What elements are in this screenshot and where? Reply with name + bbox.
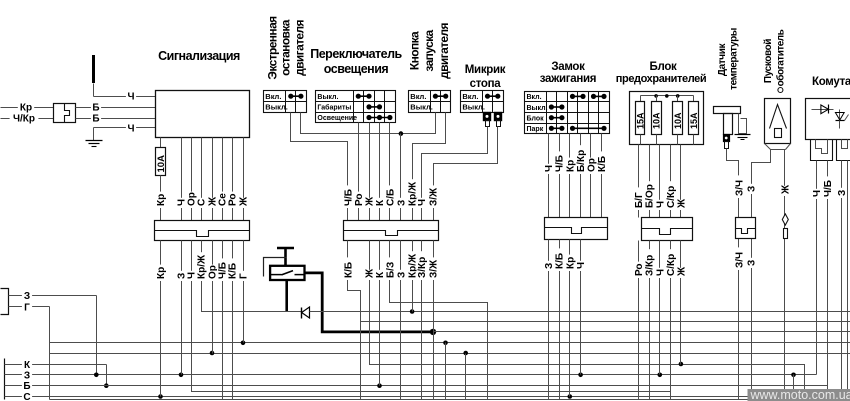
svg-text:Блок: Блок — [650, 61, 678, 73]
label С/Б above X3 — [0, 0, 1, 1]
wire bus Ор y353 — [50, 353, 850, 355]
wire К X3 drop — [379, 253, 381, 386]
svg-text:Ч: Ч — [655, 269, 666, 276]
svg-text:освещения: освещения — [324, 62, 389, 76]
fuse 10А — [673, 96, 684, 145]
svg-text:Сигнализация: Сигнализация — [158, 49, 240, 63]
svg-text:Замок: Замок — [551, 61, 585, 73]
svg-text:www.moto.com.ua: www.moto.com.ua — [750, 388, 850, 401]
svg-text:Датчик: Датчик — [717, 43, 728, 77]
switch S1 emergency stop table — [264, 91, 307, 113]
label Ч above X3 — [0, 0, 1, 1]
wire Ч commutator — [816, 161, 818, 253]
wire З/Ч temp sensor — [727, 149, 739, 253]
fuse box housing — [630, 92, 704, 145]
wire Кр/Ж below X2 — [201, 241, 203, 253]
wire Ч commutator drop — [816, 253, 818, 375]
wire Ж enricher — [784, 150, 786, 253]
label Ж — [207, 196, 219, 208]
wire Г drop — [49, 307, 51, 400]
junction dot Кр ignition — [568, 394, 573, 399]
svg-text:Ро: Ро — [354, 193, 365, 206]
enricher needle — [770, 105, 787, 138]
connector X1 (keyed) — [54, 104, 76, 123]
svg-text:Ч: Ч — [812, 190, 823, 197]
wire Ж alarm out — [243, 138, 245, 221]
label Б/Г — [634, 187, 646, 210]
label Б — [91, 113, 101, 125]
wire Ж X5 drop — [680, 253, 682, 365]
wire Ж below X3 — [369, 241, 371, 253]
svg-text:Переключатель: Переключатель — [310, 47, 402, 61]
connector X4 (ignition) — [545, 218, 608, 240]
wire К/Б X2 drop — [232, 253, 234, 400]
label Кр — [18, 102, 34, 114]
svg-text:Ж: Ж — [676, 198, 687, 209]
label Ж — [238, 196, 250, 208]
label Ж — [676, 198, 688, 210]
junction dot tap3 — [791, 373, 796, 378]
wire Кр X2 drop — [160, 253, 162, 397]
label З/Ж — [428, 185, 440, 208]
svg-text:Ж: Ж — [365, 268, 376, 279]
svg-text:температуры: температуры — [728, 28, 739, 90]
svg-text:остановка: остановка — [279, 19, 293, 76]
svg-text:Ж: Ж — [239, 196, 250, 207]
svg-text:С: С — [197, 199, 208, 206]
thyristor VS1 in commutator — [835, 110, 848, 129]
watermark bar — [748, 388, 850, 401]
wire Ч below X4 — [580, 240, 582, 253]
label К/Б — [227, 258, 239, 281]
label Б/Кр — [576, 145, 588, 174]
relay switch lever — [271, 271, 304, 275]
svg-text:З: З — [747, 260, 758, 266]
enricher funnel — [765, 144, 791, 150]
wire Ч alarm out — [181, 138, 183, 221]
contact dots S5 row1 — [570, 94, 607, 99]
svg-text:С: С — [23, 392, 30, 401]
wire Г left box — [9, 306, 50, 308]
wire К/Б below X4 — [559, 240, 561, 253]
label Ж — [364, 268, 376, 280]
wire З/Ж below X3 — [433, 241, 435, 253]
svg-text:Кр: Кр — [565, 257, 576, 269]
label З — [22, 369, 32, 381]
label Ч — [126, 122, 136, 134]
svg-text:Ч: Ч — [417, 199, 428, 206]
label Экстренная остановка двигателя — [266, 16, 307, 80]
svg-text:Б/З: Б/З — [385, 262, 396, 278]
wire З X3 drop — [400, 253, 402, 400]
fuse 15А — [689, 96, 700, 145]
contact dots S3 — [433, 94, 449, 99]
wire Ч/Б commutator drop — [827, 253, 829, 400]
svg-text:Ч: Ч — [127, 92, 134, 103]
wire Ч/Б ignition — [559, 134, 561, 218]
label Ч — [544, 164, 556, 174]
wire Кр X4 drop — [569, 253, 571, 397]
wire Ор alarm out — [191, 138, 193, 221]
wire Ч/Б from S1 — [291, 113, 348, 221]
label К — [375, 270, 387, 280]
connector left upper box — [1, 289, 9, 315]
svg-text:Экстренная: Экстренная — [266, 16, 280, 80]
label Ч — [176, 198, 188, 208]
svg-text:двигателя: двигателя — [437, 22, 451, 78]
label Ж — [676, 266, 688, 278]
junction dot Ор bus — [210, 351, 215, 356]
temp sensor terminal — [724, 135, 730, 149]
svg-text:Кнопка: Кнопка — [407, 31, 421, 70]
wire К/Б jog — [348, 253, 361, 400]
svg-text:Б: Б — [92, 114, 99, 125]
wire З below X4 — [548, 240, 550, 253]
svg-text:обогатитель: обогатитель — [775, 29, 787, 86]
label З — [746, 258, 758, 268]
svg-text:Б: Б — [23, 381, 30, 392]
junction dot Кр alarm — [158, 394, 163, 399]
svg-text:Ч/Б: Ч/Б — [823, 180, 834, 197]
wire Ж alarm out — [212, 138, 214, 221]
label З/Ж above X3 — [0, 0, 1, 1]
label Ч — [576, 261, 588, 271]
label Кр — [565, 158, 577, 174]
wire Кр below X2 — [160, 241, 162, 253]
svg-text:З: З — [24, 370, 30, 381]
label Ор — [207, 265, 219, 281]
label К/Б — [597, 151, 609, 174]
label Ор — [586, 158, 598, 174]
fuse 10А — [652, 96, 662, 145]
svg-text:Вкл.: Вкл. — [410, 92, 426, 101]
wire З commutator drop — [841, 253, 843, 400]
junction dot Ч fusebox — [658, 373, 663, 378]
wire Б lower — [76, 118, 156, 120]
commutator plug right — [837, 140, 850, 161]
wire Кр/Ж below X3 — [412, 241, 414, 253]
terminal lug S4-2 — [495, 113, 502, 127]
contact dots S5 row2 — [549, 104, 565, 109]
svg-text:Выкл.: Выкл. — [462, 103, 485, 112]
svg-text:Кр: Кр — [565, 160, 576, 172]
svg-text:З: З — [24, 291, 30, 302]
label Кр — [565, 255, 577, 271]
svg-text:З: З — [396, 272, 407, 278]
label З — [746, 184, 758, 194]
wire З/Кр X3 drop — [421, 253, 423, 400]
svg-text:15А: 15А — [636, 112, 646, 129]
label Ж — [364, 196, 376, 208]
label Б — [91, 102, 101, 114]
wire bold coil feed — [285, 280, 288, 312]
svg-text:Кр: Кр — [20, 103, 32, 114]
connector X5 (fuse box) — [642, 218, 693, 241]
wire К/Б ignition — [601, 134, 603, 218]
wire Ж below X5 — [680, 241, 682, 253]
svg-text:Блок: Блок — [527, 115, 545, 122]
junction dot tap1 — [443, 341, 448, 346]
wire С/Б from S2 — [389, 123, 391, 221]
label З — [176, 271, 188, 281]
wire З below X2 — [181, 241, 183, 253]
label Кр/Ж — [407, 179, 419, 208]
wire Се alarm out — [222, 138, 224, 221]
connector left lower box — [4, 359, 6, 400]
junction dot З X2 — [179, 373, 184, 378]
label Ро — [353, 192, 365, 208]
label Сигнализация — [158, 49, 240, 63]
svg-text:Парк: Парк — [527, 126, 544, 133]
wire Б/Ор fusebox out — [649, 145, 651, 218]
wire bus y332 thin — [434, 331, 850, 333]
label С/Кр — [666, 249, 678, 278]
wire bold relay output — [305, 273, 434, 332]
wire tap1 down — [445, 343, 447, 400]
svg-text:Ж: Ж — [676, 266, 687, 277]
svg-text:Комутатор: Комутатор — [812, 76, 850, 88]
wire commutator 4th pin drop — [847, 161, 849, 400]
wire Ро alarm out — [232, 138, 234, 221]
wire tap3 down — [793, 375, 795, 400]
label Б/Ор — [644, 181, 656, 210]
wire Ч below X5 — [659, 241, 661, 253]
label З/Кр — [644, 249, 656, 278]
svg-text:Кр/Ж: Кр/Ж — [197, 254, 208, 279]
contact dots S5 row4 — [549, 126, 607, 131]
label Ч/Б — [554, 151, 566, 174]
wire Кр ignition — [569, 134, 571, 218]
wire К below X3 — [379, 241, 381, 253]
svg-text:15А: 15А — [689, 112, 699, 129]
label З/Ч — [734, 175, 746, 198]
wire Ор ignition — [590, 134, 592, 218]
svg-text:Б/Ор: Б/Ор — [645, 184, 656, 208]
enricher vent circle — [778, 88, 783, 93]
label З/Ч — [734, 247, 746, 270]
junction dot Ч ignition — [578, 373, 583, 378]
svg-text:З/Кр: З/Кр — [645, 255, 656, 276]
wire bus y391 — [192, 253, 671, 392]
wire Ч antenna to alarm box — [94, 96, 156, 98]
label Кр/Ж — [196, 252, 208, 281]
wire bottom edge — [50, 399, 850, 401]
label З — [544, 261, 556, 271]
rail junction dots — [654, 94, 679, 98]
wire Ч/Б commutator — [827, 161, 829, 253]
wire З enricher — [752, 150, 771, 253]
label Б — [22, 380, 32, 392]
junction dot Ж conn5 — [679, 362, 684, 367]
svg-text:Ч: Ч — [655, 201, 666, 208]
wire Ч ignition — [548, 134, 550, 218]
switch S4 stop micro table — [461, 91, 504, 113]
svg-text:Кр: Кр — [156, 194, 167, 206]
wire bus С y396 — [34, 396, 785, 398]
svg-text:зажигания: зажигания — [540, 73, 596, 85]
wire С left — [5, 396, 34, 398]
wire З/Ж X3 drop — [433, 253, 435, 400]
wire З X4 drop — [548, 253, 550, 400]
ignition coil T-bar — [277, 248, 294, 266]
diode VD2 in commutator — [812, 105, 834, 114]
wire Ж from S2 — [369, 123, 371, 221]
contact dots S1 — [288, 94, 303, 99]
wire Ж enricher drop — [784, 253, 786, 400]
label Микрик стопа — [465, 64, 506, 90]
wire Ор below X2 — [212, 241, 214, 253]
svg-text:двигателя: двигателя — [292, 19, 306, 75]
label Ч/Б — [343, 185, 355, 208]
ground (temp sensor) — [735, 135, 751, 140]
label Ч/Б — [823, 176, 835, 199]
label Ч — [126, 91, 136, 103]
svg-text:Выкл.: Выкл. — [527, 105, 548, 112]
junction dot Г bus — [241, 341, 246, 346]
label З — [396, 198, 408, 208]
wire Ч/Б X2 drop — [222, 253, 224, 400]
svg-text:С/Б: С/Б — [385, 189, 396, 206]
svg-text:К/Б: К/Б — [555, 253, 566, 269]
svg-text:Ор: Ор — [586, 158, 597, 172]
commutator plug left — [811, 140, 833, 161]
commutator A1 box — [806, 99, 850, 140]
svg-text:Ро: Ро — [228, 193, 239, 206]
label Замок зажигания — [540, 61, 596, 85]
svg-text:Ч: Ч — [576, 262, 587, 269]
wire К from S2 — [379, 123, 381, 221]
label Кр — [156, 265, 168, 281]
svg-text:З/Кр: З/Кр — [417, 257, 428, 278]
wire Ро X5 drop — [638, 253, 640, 400]
svg-text:З: З — [396, 200, 407, 206]
label Ч — [812, 189, 824, 199]
label Ч — [186, 271, 198, 281]
svg-text:предохранителей: предохранителей — [616, 73, 707, 85]
label С — [22, 391, 32, 401]
wire З left box — [9, 295, 97, 297]
wire Кр below X4 — [569, 240, 571, 253]
wire bus З y375 — [34, 374, 817, 376]
wire К/Б X4 drop — [559, 253, 561, 400]
label К — [375, 198, 387, 208]
wire Ро below X5 — [638, 241, 640, 253]
svg-text:Вкл.: Вкл. — [527, 94, 542, 101]
svg-text:З: З — [544, 263, 555, 269]
wire З to X3 — [400, 134, 402, 221]
svg-text:Ч: Ч — [127, 123, 134, 134]
label Ро — [227, 192, 239, 208]
svg-text:З/Ж: З/Ж — [429, 259, 440, 278]
wire bus Г y343 — [50, 342, 850, 344]
wire bus Б/З — [390, 253, 488, 400]
svg-text:З: З — [747, 186, 758, 192]
label Пусковой обогатитель — [763, 29, 787, 86]
svg-text:Ч/Б: Ч/Б — [343, 189, 354, 206]
wire С alarm out — [201, 138, 203, 221]
svg-text:Ж: Ж — [780, 184, 791, 195]
wire З/Кр below X3 — [421, 241, 423, 253]
svg-text:10А: 10А — [156, 155, 167, 173]
label Ро above X3 — [0, 0, 1, 1]
wire Ж fusebox out — [680, 145, 682, 218]
wire З/Кр X5 drop — [649, 253, 651, 400]
wire З net S1-S3 — [301, 113, 436, 134]
wire Г X2 drop — [243, 253, 245, 343]
wire З/Ч sensor drop — [738, 253, 740, 400]
label К/Б — [554, 248, 566, 271]
label Ч — [655, 200, 667, 210]
svg-text:стопа: стопа — [470, 78, 502, 90]
wire З/Кр below X5 — [649, 241, 651, 253]
contact dots S2 row1 — [356, 94, 372, 99]
wire Б left — [5, 385, 34, 387]
wire Б upper — [76, 107, 156, 109]
label Б/З — [385, 257, 397, 280]
svg-text:Кр: Кр — [156, 267, 167, 279]
label Ч/Б above X3 — [0, 0, 1, 1]
label З/Ж — [428, 257, 440, 280]
svg-text:З: З — [837, 190, 848, 196]
label Ж above X3 — [0, 0, 1, 1]
svg-text:Вкл.: Вкл. — [265, 92, 281, 101]
wire Ч X4 drop — [580, 253, 582, 375]
label Ж — [780, 184, 792, 196]
svg-text:Выкл.: Выкл. — [410, 103, 433, 112]
wire Ч below X2 — [191, 241, 193, 253]
label С/Б — [385, 185, 397, 208]
relay K1 body — [270, 266, 304, 280]
alarm unit box — [156, 91, 250, 138]
wire Б/Г fusebox out — [638, 145, 640, 218]
svg-text:Г: Г — [24, 302, 30, 313]
label Блок предохранителей — [616, 61, 707, 85]
switch S2 light switch table — [316, 91, 396, 123]
label З/Кр — [417, 251, 429, 280]
label Комутатор — [812, 76, 850, 88]
wire bus Б y386 — [34, 385, 828, 387]
label Датчик температуры — [717, 28, 740, 90]
switch S5 ignition table — [525, 92, 610, 134]
label З — [837, 188, 849, 198]
contact dots S2 row2 — [366, 104, 382, 109]
fuse 10А — [156, 138, 168, 176]
connector X2 (alarm 8-pin) — [155, 221, 250, 241]
label З above X3 — [0, 0, 1, 1]
label К above X3 — [0, 0, 1, 1]
label З — [22, 290, 32, 302]
wire Кр alarm out — [160, 176, 162, 221]
svg-text:Габариты: Габариты — [317, 104, 351, 112]
wire bus y321 — [361, 321, 850, 323]
wire commutator Ч riser — [816, 253, 818, 375]
terminal lug S4-1 — [484, 113, 491, 127]
wire tap2 down — [465, 354, 467, 400]
ground (alarm) — [86, 141, 103, 147]
svg-text:Ч/Б: Ч/Б — [555, 155, 566, 172]
wire Б/З below X3 — [389, 241, 391, 253]
wire Кр/Ж from S3 — [413, 113, 446, 221]
svg-text:10А: 10А — [673, 112, 683, 129]
label С/Кр — [666, 181, 678, 210]
wire Ж X3 to bus — [370, 253, 372, 365]
label Ор — [186, 192, 198, 208]
junction dot З — [399, 131, 404, 136]
connector X3 (handlebar 9-pin) — [344, 221, 439, 241]
svg-text:К/Б: К/Б — [597, 156, 608, 172]
svg-text:З/Ж: З/Ж — [429, 187, 440, 206]
label Ч — [417, 198, 429, 208]
